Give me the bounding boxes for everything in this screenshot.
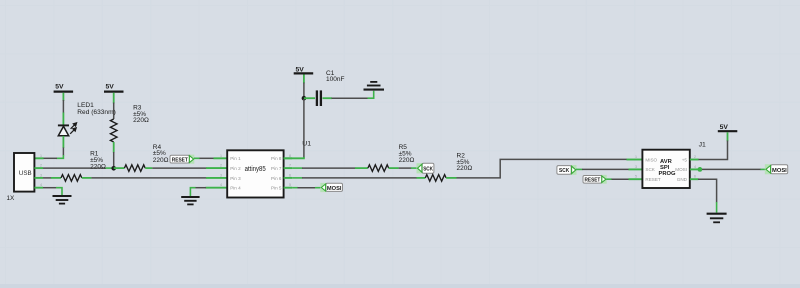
resistor R3 — [110, 119, 117, 167]
svg-text:RESET: RESET — [585, 178, 601, 184]
svg-text:PROG: PROG — [659, 171, 677, 177]
svg-text:5: 5 — [289, 183, 291, 187]
svg-text:RESET: RESET — [172, 157, 189, 163]
svg-text:attiny85: attiny85 — [245, 166, 266, 173]
svg-text:220Ω: 220Ω — [133, 117, 149, 124]
wire R5 to SCK label — [399, 167, 418, 169]
svg-text:7: 7 — [289, 164, 291, 168]
svg-text:+5: +5 — [682, 157, 688, 162]
svg-text:220Ω: 220Ω — [153, 157, 169, 164]
svg-text:100nF: 100nF — [326, 76, 344, 83]
svg-text:Pin 2: Pin 2 — [230, 166, 241, 171]
net label RESET (J1 side) — [583, 175, 607, 184]
svg-text:5: 5 — [635, 175, 637, 179]
svg-text:6: 6 — [289, 173, 291, 177]
5V supply (R3 branch) — [104, 84, 124, 104]
svg-text:2: 2 — [220, 164, 222, 168]
wire 5V to LED anode — [62, 100, 64, 125]
wire SCK label to J1 — [576, 168, 642, 170]
svg-text:Red (633nm): Red (633nm) — [77, 109, 115, 116]
wire USB pin2 to junction — [43, 167, 112, 169]
svg-text:5V: 5V — [106, 84, 115, 91]
svg-text:3: 3 — [40, 173, 42, 177]
svg-text:MOSI: MOSI — [327, 186, 342, 192]
junction node at C1 — [302, 96, 307, 101]
wire 5V to J1 +5 pin — [690, 141, 728, 160]
label LED1 Red (633nm) — [77, 102, 115, 116]
wire C1 to ground — [332, 91, 374, 99]
svg-text:Pin 8: Pin 8 — [271, 156, 282, 161]
svg-text:220Ω: 220Ω — [457, 165, 473, 172]
net label SCK (U1 side) — [417, 163, 434, 173]
resistor R1 — [61, 175, 91, 182]
svg-text:J1: J1 — [699, 141, 706, 148]
svg-text:1: 1 — [220, 154, 222, 158]
svg-text:USB: USB — [19, 170, 32, 177]
wire USB pin3 to R1 — [43, 177, 61, 179]
label R5 — [399, 144, 415, 164]
label R4 — [153, 144, 169, 164]
net label MOSI (right) — [765, 164, 788, 174]
label R1 — [90, 151, 106, 171]
svg-text:GND: GND — [677, 177, 688, 182]
wire R4 to IC pin2 — [152, 167, 227, 169]
svg-text:RESET: RESET — [645, 177, 661, 182]
svg-text:Pin 7: Pin 7 — [271, 166, 282, 171]
net label RESET — [170, 155, 194, 164]
svg-text:4: 4 — [694, 165, 696, 169]
svg-text:Pin 3: Pin 3 — [230, 176, 241, 181]
wire R2 to J1 MISO — [457, 159, 643, 178]
svg-text:1X: 1X — [7, 195, 16, 202]
svg-text:1: 1 — [635, 155, 637, 159]
svg-text:6: 6 — [694, 175, 696, 179]
label R2 — [457, 153, 473, 173]
wire node to IC pin8 — [284, 99, 304, 158]
wire IC pin4 to ground — [190, 188, 227, 197]
svg-text:220Ω: 220Ω — [399, 157, 415, 164]
svg-text:MISO: MISO — [645, 157, 657, 162]
LED LED1 — [58, 123, 77, 136]
USB connector X1 — [7, 153, 44, 202]
wire LED cathode to USB pin1 — [34, 136, 63, 158]
svg-text:1: 1 — [40, 154, 42, 158]
label C1 100nF — [326, 70, 344, 83]
wire J1 GND to ground — [690, 179, 717, 213]
ground (IC pin4) — [181, 197, 199, 204]
ground (USB) — [53, 196, 72, 204]
wire IC pin7 to R5 — [292, 167, 368, 169]
5V supply (C1 branch) — [294, 66, 314, 83]
wire IC pin5 to MOSI label — [292, 187, 320, 189]
svg-text:2: 2 — [694, 155, 696, 159]
svg-text:Pin 5: Pin 5 — [271, 186, 282, 191]
resistor R4 — [114, 165, 153, 172]
svg-text:MOSI: MOSI — [675, 167, 687, 172]
ground (J1) — [707, 214, 727, 223]
svg-text:SCK: SCK — [423, 167, 433, 173]
IC U1 attiny85 — [220, 150, 292, 197]
resistor R5 — [368, 165, 399, 172]
junction node — [111, 166, 116, 171]
svg-text:SCK: SCK — [645, 167, 655, 172]
label J1 — [699, 141, 706, 148]
ground (C1, inverted) — [364, 82, 385, 90]
label U1 — [302, 141, 311, 148]
svg-text:SCK: SCK — [559, 168, 570, 174]
svg-text:8: 8 — [289, 154, 291, 158]
svg-text:Pin 6: Pin 6 — [271, 176, 282, 181]
resistor R2 — [425, 175, 456, 182]
capacitor C1 — [304, 90, 332, 106]
svg-text:4: 4 — [220, 183, 222, 187]
net label MOSI (U1 side) — [320, 183, 342, 192]
5V supply (LED branch) — [54, 84, 74, 101]
wire 5V to R3 — [113, 103, 115, 120]
svg-text:220Ω: 220Ω — [90, 164, 106, 171]
svg-text:MOSI: MOSI — [772, 168, 787, 174]
svg-text:5V: 5V — [720, 124, 729, 131]
svg-text:3: 3 — [220, 173, 222, 177]
wire 5V to node — [303, 83, 305, 98]
wire USB pin4 to ground — [43, 188, 62, 196]
connector J1 AVR SPI PROG — [635, 150, 696, 188]
label R3 — [133, 105, 149, 125]
svg-text:Pin 1: Pin 1 — [230, 156, 241, 161]
svg-text:5V: 5V — [55, 84, 64, 91]
wire RESET label to J1 — [606, 178, 642, 180]
wire R1 to IC pin3 — [91, 177, 227, 179]
svg-text:3: 3 — [635, 165, 637, 169]
svg-text:4: 4 — [40, 183, 42, 187]
svg-text:Pin 4: Pin 4 — [230, 186, 241, 191]
svg-text:2: 2 — [40, 164, 42, 168]
5V supply (J1 branch) — [718, 124, 738, 141]
wire IC pin6 to R2 — [292, 177, 425, 179]
net label SCK (J1 side) — [557, 165, 577, 175]
wire J1 MOSI to MOSI label — [690, 167, 766, 172]
wire RESET to IC pin1 — [194, 157, 227, 159]
